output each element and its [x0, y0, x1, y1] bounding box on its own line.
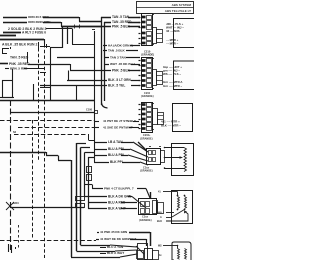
- wire row y28.5: [46, 28, 72, 30]
- svg-text:C2xx: C2xx: [143, 167, 150, 170]
- dashed horiz y120.5: [0, 120, 95, 122]
- svg-text:41 PNT DE JT STN/BLK: 41 PNT DE JT STN/BLK: [103, 119, 137, 123]
- vertical x88: [88, 157, 90, 209]
- wire MS: [163, 245, 178, 247]
- wire ORN .5 ORN: [3, 17, 27, 19]
- vertical x67: [67, 27, 69, 45]
- svg-text:BLK .5 LT GRN: BLK .5 LT GRN: [108, 78, 132, 82]
- svg-text:--- MTR −: --- MTR −: [166, 42, 179, 46]
- box C pump motor: [173, 104, 193, 132]
- wire PNK .35 RED row: [0, 63, 8, 65]
- wire bar1: [3, 32, 21, 34]
- connector5: [150, 192, 152, 198]
- svg-text:ABS TELLTALE LT: ABS TELLTALE LT: [165, 9, 191, 13]
- svg-text:A BLK .35 BLK RUN 2: A BLK .35 BLK RUN 2: [2, 42, 37, 46]
- wire bar2: [0, 35, 16, 37]
- arrow D: [180, 156, 184, 159]
- svg-text:WS ---- PLS −: WS ---- PLS −: [163, 72, 181, 76]
- svg-text:TAN .5 TAN: TAN .5 TAN: [112, 15, 130, 19]
- connector6: [138, 244, 148, 260]
- wire bar3: [0, 39, 44, 41]
- inline connector ticks: [74, 25, 76, 29]
- box E pump: [172, 191, 193, 224]
- svg-text:C210: C210: [144, 92, 151, 95]
- svg-text:A RLY 2 FUSE 6: A RLY 2 FUSE 6: [22, 31, 46, 35]
- wire BLU A TAN: [100, 247, 106, 249]
- svg-text:BLK A WHT: BLK A WHT: [107, 251, 124, 255]
- svg-text:41 WHT DE DK GRN/WHT: 41 WHT DE DK GRN/WHT: [100, 237, 136, 241]
- wire top E: [163, 191, 178, 193]
- wire TAN .5 BLK: [103, 50, 107, 52]
- connector4: [138, 142, 146, 150]
- svg-text:BLU A RED: BLU A RED: [108, 201, 126, 205]
- wire TAN 3 TAN right: [104, 57, 109, 59]
- svg-text:TAN .5 RED: TAN .5 RED: [10, 56, 29, 60]
- wire TAN .35 RED: [104, 22, 111, 24]
- svg-text:BLU A PPL: BLU A PPL: [108, 153, 125, 157]
- vertical x68 low: [68, 71, 70, 81]
- svg-text:PNK .5 BLK: PNK .5 BLK: [112, 25, 131, 29]
- wire y44: [72, 44, 94, 46]
- svg-text:C100: C100: [86, 109, 93, 112]
- wire TAN .5 TAN: [101, 17, 111, 19]
- svg-text:C210+: C210+: [143, 134, 151, 137]
- wire BLK PPL 1: [94, 162, 109, 164]
- wire y57.5: [57, 57, 94, 59]
- svg-text:PNK 4 CT BLK/PPL 7: PNK 4 CT BLK/PPL 7: [104, 187, 134, 191]
- dashed horiz y134: [14, 134, 86, 136]
- svg-text:41 SHE DE PNT/WHT: 41 SHE DE PNT/WHT: [103, 126, 133, 130]
- component box left: [3, 81, 13, 98]
- vertical x33: [33, 84, 35, 100]
- vertical x72 top: [72, 29, 74, 45]
- wire ORN 28/20: [3, 22, 27, 24]
- loop E: [166, 211, 188, 221]
- wire LB A TAN: [94, 142, 107, 144]
- wire ticks y44-48: [38, 42, 40, 48]
- svg-text:HA (A/DK GRN 2): HA (A/DK GRN 2): [108, 44, 133, 48]
- vertical bus x76.5: [76, 143, 78, 251]
- box B EBCM: [174, 61, 196, 90]
- svg-text:(GRANDE): (GRANDE): [140, 138, 153, 141]
- Z step wire: [85, 184, 93, 186]
- wire row y64 mid: [28, 64, 70, 66]
- wire E row2: [166, 217, 172, 219]
- connector C200: [142, 14, 153, 46]
- wire y112: [10, 112, 94, 114]
- svg-text:BLK ---- MTR −: BLK ---- MTR −: [161, 124, 181, 128]
- svg-text:BLK .5 YEL: BLK .5 YEL: [108, 84, 125, 88]
- dashed horiz y240: [0, 240, 96, 242]
- wire corner WHT down: [146, 239, 148, 246]
- svg-text:TAN 3 TAN: TAN 3 TAN: [110, 56, 126, 60]
- svg-text:WA: WA: [158, 212, 162, 215]
- svg-text:BLK PPL: BLK PPL: [110, 160, 124, 164]
- coil D: [184, 148, 187, 172]
- bottom left stub verticals: [8, 244, 10, 252]
- inline connector marks x88: [87, 167, 92, 173]
- coil E2: [185, 197, 187, 209]
- svg-text:PNK .35 RED: PNK .35 RED: [9, 62, 30, 66]
- header box: [137, 2, 194, 14]
- svg-text:BLK A DK GRN: BLK A DK GRN: [108, 195, 132, 199]
- wire BLK A DK GRN row: [128, 196, 132, 198]
- bus vertical x104: [104, 22, 106, 101]
- boundary ticks: [40, 72, 46, 74]
- svg-text:MS: MS: [158, 245, 162, 248]
- wire WHT DK GRN/WHT: [96, 239, 99, 241]
- wire row y70.5 right: [70, 70, 111, 72]
- wire BLK A WHT: [88, 208, 107, 210]
- svg-text:42 --- SNS: 42 --- SNS: [166, 29, 180, 33]
- coil F1: [178, 249, 180, 260]
- svg-text:(GRANDE): (GRANDE): [139, 219, 152, 222]
- svg-text:41 PNK 35 DK GRN: 41 PNK 35 DK GRN: [100, 230, 127, 234]
- wire y100: [0, 100, 94, 102]
- svg-text:WHT .35 DK BLU: WHT .35 DK BLU: [110, 62, 136, 66]
- corner vertical x76: [76, 86, 78, 101]
- wire WHT .35 DK BLU right: [104, 64, 109, 66]
- wire D3: [164, 168, 184, 170]
- wire PNK .5 BLK: [61, 26, 111, 28]
- connector block3: [142, 103, 153, 133]
- wire WHT A DK GRN: [85, 196, 108, 198]
- svg-text:PNK .5 BLK: PNK .5 BLK: [112, 69, 131, 73]
- box F rear: [172, 242, 191, 260]
- wire TAN A DK GRN: [103, 45, 107, 47]
- diag into connector5: [132, 197, 146, 209]
- dashed vertical x44: [44, 44, 46, 258]
- dashed corner x88.5: [88, 134, 90, 140]
- wire BLK .5 YEL: [40, 85, 107, 87]
- svg-text:A: A: [160, 216, 162, 219]
- bus vertical x101: [101, 17, 103, 105]
- wire BLK .5 LT GRN: [67, 80, 107, 82]
- vertical x12: [12, 69, 14, 80]
- vertical bus x80.5: [80, 148, 82, 246]
- wire D2: [164, 157, 181, 159]
- svg-text:BLU A TAN: BLU A TAN: [107, 245, 124, 249]
- dashed vertical x32: [32, 120, 34, 238]
- svg-text:ABS SYSTEM: ABS SYSTEM: [172, 3, 192, 7]
- wire row y68.5 left: [5, 68, 9, 70]
- svg-text:4x1 ---- MTR +: 4x1 ---- MTR +: [161, 120, 180, 124]
- vertical x50: [50, 48, 52, 101]
- diag E: [172, 210, 184, 217]
- wire E row1: [166, 212, 174, 214]
- wire y207: [10, 207, 84, 209]
- vertical x84.5: [84, 153, 86, 197]
- svg-text:(GRANDE): (GRANDE): [140, 170, 153, 173]
- vertical bus x71: [71, 160, 73, 257]
- bus corner hook: [102, 103, 108, 108]
- wire BLU A RED: [88, 202, 107, 204]
- box A PCM: [174, 19, 196, 48]
- feeder vertical x94: [94, 44, 96, 155]
- inline connector pair marks: [76, 197, 85, 201]
- wire BLU A PPL: [94, 149, 107, 151]
- coil E1: [178, 197, 180, 209]
- svg-text:Grn ---- MTR A: Grn ---- MTR A: [163, 80, 182, 84]
- svg-text:Grn ---- MTR −: Grn ---- MTR −: [163, 84, 182, 88]
- connector C210 second: [142, 58, 153, 90]
- wire y47.5: [50, 47, 62, 49]
- svg-text:TAN .5 BLK: TAN .5 BLK: [108, 49, 126, 53]
- splice S204: [6, 202, 14, 210]
- wire y152 steps: [0, 152, 46, 154]
- svg-text:TAN .35 RED: TAN .35 RED: [112, 20, 132, 24]
- wire corner PNK down: [150, 232, 152, 246]
- svg-text:C2xx: C2xx: [142, 216, 149, 219]
- box D solenoid: [172, 144, 194, 176]
- wire BLK A WHT: [100, 253, 106, 255]
- vertical x62: [62, 27, 64, 49]
- coil F2: [185, 249, 187, 260]
- wire into conn3 p1: [95, 121, 99, 123]
- dashed vertical x18: [18, 225, 20, 250]
- dashed vertical x38: [38, 48, 40, 160]
- svg-text:ORN 30.5 ORN: ORN 30.5 ORN: [28, 15, 49, 19]
- wire PNK 35 DK GRN: [97, 232, 99, 234]
- dashed horiz y127.5: [18, 127, 95, 129]
- svg-text:(GRANDE): (GRANDE): [141, 95, 154, 98]
- dashed vertical x10: [10, 100, 12, 250]
- svg-text:LB A TAN: LB A TAN: [108, 140, 123, 144]
- bracket TL: [2, 48, 9, 50]
- wire BLK PPL 2: [92, 188, 103, 190]
- connector6 cluster: [137, 251, 144, 259]
- wire D1: [164, 147, 184, 149]
- svg-text:ORN 28/20 ORN: ORN 28/20 ORN: [28, 20, 50, 24]
- bottom corner wires: [71, 257, 120, 259]
- svg-text:S204: S204: [13, 202, 19, 205]
- svg-text:BLK A WHT: BLK A WHT: [108, 207, 126, 211]
- wire BLU A PPL 2: [94, 155, 107, 157]
- svg-text:BLU A PPL: BLU A PPL: [108, 147, 125, 151]
- svg-text:BLK: BLK: [157, 220, 162, 223]
- wire into conn3 p2: [95, 127, 99, 129]
